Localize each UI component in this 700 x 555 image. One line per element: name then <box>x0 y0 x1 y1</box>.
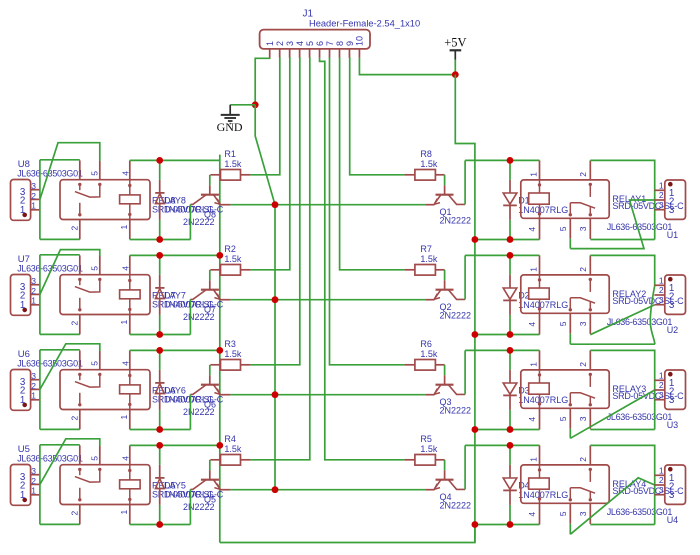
svg-text:2: 2 <box>659 380 664 390</box>
resistor R6 1.5k <box>405 364 415 366</box>
svg-text:JL636-63503G01: JL636-63503G01 <box>607 507 673 517</box>
transistor Q6 2N2222 <box>209 375 211 384</box>
svg-text:2: 2 <box>659 285 664 295</box>
connector U3 body <box>665 370 686 409</box>
svg-text:1: 1 <box>529 457 539 462</box>
transistor Q2 2N2222 <box>444 280 446 289</box>
svg-text:3: 3 <box>578 226 588 231</box>
J1 pin 3 lead <box>289 49 291 58</box>
transistor Q4 2N2222 <box>444 470 446 479</box>
node emitter rail junction row 4 <box>272 486 279 493</box>
svg-text:4: 4 <box>121 171 131 176</box>
wire resistor R6 to base <box>444 365 446 376</box>
wire resistor R4 to base <box>209 460 211 471</box>
wire loop row 1 top <box>40 159 80 161</box>
wire collector Q6 down <box>189 394 191 429</box>
wire loop row 2 bottom <box>40 333 80 335</box>
wire J1 pin 7 to resistor <box>330 58 405 365</box>
relay RELAY1 switch <box>589 183 592 186</box>
svg-text:GND: GND <box>217 120 243 134</box>
svg-text:2: 2 <box>275 41 285 46</box>
node +5V rail junction row 3 <box>472 426 479 433</box>
svg-text:R3: R3 <box>224 339 236 349</box>
relay RELAY6 pin 5 lead <box>99 351 101 370</box>
relay RELAY8 pin 5 lead <box>99 161 101 180</box>
svg-text:1N4007RLG: 1N4007RLG <box>518 490 568 500</box>
wire loop row 3 left vertical <box>39 350 41 430</box>
svg-text:2: 2 <box>31 191 36 201</box>
relay RELAY8 switch <box>78 183 81 186</box>
svg-text:3: 3 <box>659 390 664 400</box>
wire resistor R8 to base <box>444 175 446 186</box>
svg-text:4: 4 <box>527 322 537 327</box>
node diode D2 cathode junction <box>507 331 514 338</box>
wire coil rail right row 4 <box>465 444 539 446</box>
node diode D6 cathode junction <box>156 347 163 354</box>
connector U8 pin1 marker <box>22 213 27 218</box>
wire resistor R5 to base <box>444 460 446 471</box>
svg-text:1: 1 <box>20 205 25 216</box>
relay RELAY6 coil <box>129 370 131 385</box>
svg-text:1: 1 <box>119 415 129 420</box>
connector U3 pin1 marker <box>668 372 673 377</box>
svg-text:5: 5 <box>305 41 315 46</box>
node diode D7 anode junction <box>156 331 163 338</box>
svg-text:3: 3 <box>669 205 675 216</box>
relay RELAY2 body <box>521 275 609 313</box>
wire J1 pin1 to GND node <box>255 58 270 105</box>
svg-text:1: 1 <box>529 362 539 367</box>
relay RELAY3 pin 3 lead <box>589 408 591 429</box>
wire loop row 3 bottom <box>40 428 80 430</box>
relay RELAY2 pin 3 lead <box>589 313 591 334</box>
svg-text:1N4007RLG: 1N4007RLG <box>518 300 568 310</box>
relay RELAY5 pin 5 lead <box>99 446 101 465</box>
svg-text:1: 1 <box>529 267 539 272</box>
wire relay pin5 link row 3 <box>569 429 571 439</box>
svg-text:R6: R6 <box>420 339 432 349</box>
J1 pin 4 lead <box>299 49 301 58</box>
svg-text:1: 1 <box>31 486 36 496</box>
wire J1 pin 6 to resistor R5 <box>320 58 405 460</box>
wire pin2 to relay common row 1 <box>40 143 100 200</box>
connector U2 pin1 marker <box>668 277 673 282</box>
relay RELAY7 pin 1 lead <box>129 315 131 335</box>
resistor R8 1.5k <box>405 174 415 176</box>
svg-text:2: 2 <box>578 362 588 367</box>
svg-text:R1: R1 <box>224 149 236 159</box>
svg-text:2: 2 <box>70 511 80 516</box>
connector U4 body <box>665 465 686 504</box>
svg-text:JL636-63503G01: JL636-63503G01 <box>17 359 83 369</box>
wire emitter rail row 4 <box>230 489 425 491</box>
node diode D3 cathode junction <box>507 426 514 433</box>
relay RELAY6 body <box>60 370 150 410</box>
relay RELAY2 pin 5 lead <box>569 313 571 333</box>
relay RELAY7 coil <box>129 275 131 290</box>
transistor Q7 2N2222 <box>209 280 211 289</box>
connector U5 pin 3 lead <box>31 474 40 476</box>
connector U1 pin1 marker <box>668 182 673 187</box>
svg-text:1: 1 <box>31 296 36 306</box>
svg-text:R7: R7 <box>420 244 432 254</box>
svg-text:9: 9 <box>345 41 355 46</box>
relay RELAY5 switch <box>78 468 81 471</box>
node left bus junction row 4 <box>216 442 223 449</box>
resistor R3 1.5k <box>210 364 220 366</box>
svg-text:2N2222: 2N2222 <box>183 312 215 322</box>
wire relay pin2 route row 3 <box>590 350 654 429</box>
relay RELAY1 coil <box>538 183 541 186</box>
svg-text:3: 3 <box>578 321 588 326</box>
svg-text:1: 1 <box>31 201 36 211</box>
svg-text:2: 2 <box>70 321 80 326</box>
relay RELAY4 body <box>521 465 609 503</box>
wire relay pin5 link row 4 <box>569 524 571 535</box>
connector U1 pin 3 lead <box>654 209 664 211</box>
ground symbol GND <box>229 105 231 114</box>
svg-text:1: 1 <box>119 510 129 515</box>
resistor R4 1.5k <box>210 459 220 461</box>
svg-text:1: 1 <box>659 181 664 191</box>
wire diode D6 branch <box>159 350 161 370</box>
node diode D5 cathode junction <box>156 442 163 449</box>
relay RELAY3 pin 1 lead <box>539 350 541 370</box>
wire resistor R1 to base <box>209 175 211 186</box>
wire GND stub <box>230 104 255 106</box>
wire relay pin2 route row 2 <box>590 255 654 285</box>
J1 pin 1 lead <box>269 49 271 58</box>
wire drive rail row 1 <box>130 239 191 241</box>
node emitter rail junction row 3 <box>272 391 279 398</box>
relay RELAY3 coil <box>538 373 541 376</box>
wire emitter rail row 2 <box>230 299 425 301</box>
wire relay pin5 link row 2 <box>569 334 571 345</box>
connector U5 body <box>11 465 31 506</box>
wire coil rail row 4 <box>130 444 220 446</box>
connector J1 Header-Female-2.54_1x10 body <box>260 30 370 49</box>
connector U7 pin 3 lead <box>31 284 40 286</box>
svg-text:3: 3 <box>669 395 675 406</box>
svg-text:10: 10 <box>355 36 365 46</box>
svg-text:3: 3 <box>578 416 588 421</box>
wire resistor R7 to base <box>444 270 446 281</box>
connector U1 pin 1 lead <box>654 189 664 191</box>
wire coil rail row 3 <box>130 349 220 351</box>
svg-text:2N2222: 2N2222 <box>183 502 215 512</box>
relay RELAY6 pin 4 lead <box>129 350 131 369</box>
connector U4 pin1 marker <box>668 467 673 472</box>
J1 pin 10 lead <box>358 49 360 58</box>
svg-text:2N2222: 2N2222 <box>440 216 472 226</box>
diode D3 1N4007RLG <box>509 370 511 383</box>
wire loop row 2 left vertical <box>39 255 41 335</box>
wire diode D2 branch <box>509 255 511 275</box>
relay RELAY8 coil <box>129 180 131 195</box>
resistor R2 1.5k <box>210 269 220 271</box>
svg-text:1: 1 <box>659 466 664 476</box>
connector U6 pin 1 lead <box>31 399 40 401</box>
relay RELAY3 pin 2 lead <box>589 350 591 370</box>
wire loop row 4 top <box>40 444 80 446</box>
svg-text:5: 5 <box>90 456 100 461</box>
diode D1 1N4007RLG <box>509 180 511 193</box>
wire J1 pin 2 to resistor <box>250 58 279 175</box>
svg-text:3: 3 <box>578 511 588 516</box>
svg-text:2N2222: 2N2222 <box>440 501 472 511</box>
svg-text:1: 1 <box>265 41 275 46</box>
svg-text:4: 4 <box>527 227 537 232</box>
relay RELAY4 switch <box>589 468 592 471</box>
relay RELAY4 coil <box>538 468 541 471</box>
svg-text:2: 2 <box>659 475 664 485</box>
wire collector Q3 up <box>464 350 466 394</box>
connector U4 pin 1 lead <box>654 474 664 476</box>
connector U6 body <box>11 370 31 411</box>
node diode D7 cathode junction <box>156 252 163 259</box>
svg-text:1: 1 <box>659 371 664 381</box>
wire diode D8 branch <box>159 160 161 180</box>
relay RELAY2 pin 4 lead <box>539 313 541 334</box>
wire J1 pin10 to +5V node <box>359 58 455 75</box>
wire +5V rail right row 1 <box>475 239 540 241</box>
svg-text:2: 2 <box>70 226 80 231</box>
relay RELAY7 pin 4 lead <box>129 255 131 274</box>
transistor Q3 2N2222 <box>444 375 446 384</box>
relay RELAY7 pin 3 lead <box>79 255 81 274</box>
relay RELAY4 pin 1 lead <box>539 445 541 465</box>
transistor Q1 2N2222 <box>444 185 446 194</box>
relay RELAY7 pin 5 lead <box>99 256 101 275</box>
resistor R5 1.5k <box>405 459 415 461</box>
svg-text:4: 4 <box>121 361 131 366</box>
svg-text:5: 5 <box>90 171 100 176</box>
svg-text:1.5k: 1.5k <box>224 444 242 454</box>
wire pin3 rail right row 3 <box>590 429 654 431</box>
wire +5V feed down right side <box>455 75 475 543</box>
node diode D8 cathode junction <box>156 157 163 164</box>
svg-text:3: 3 <box>659 295 664 305</box>
resistor R7 1.5k <box>405 269 415 271</box>
relay RELAY8 pin 3 lead <box>79 160 81 179</box>
svg-text:1N4007RLG: 1N4007RLG <box>518 395 568 405</box>
svg-text:3: 3 <box>31 466 36 476</box>
diode D5 1N4007RLG <box>159 465 161 478</box>
wire pin2 to relay common row 4 <box>40 439 100 485</box>
relay RELAY1 pin 4 lead <box>539 218 541 239</box>
svg-text:2: 2 <box>578 267 588 272</box>
svg-text:1.5k: 1.5k <box>224 254 242 264</box>
svg-text:1N4007RLG: 1N4007RLG <box>518 205 568 215</box>
svg-text:U3: U3 <box>667 420 679 430</box>
svg-text:3: 3 <box>669 490 675 501</box>
diode D8 1N4007RLG <box>159 180 161 193</box>
connector U3 pin 1 lead <box>654 379 664 381</box>
relay RELAY1 body <box>521 180 609 218</box>
svg-text:Header-Female-2.54_1x10: Header-Female-2.54_1x10 <box>309 19 420 29</box>
relay RELAY1 pin 3 lead <box>589 218 591 239</box>
svg-text:U1: U1 <box>667 230 679 240</box>
wire collector Q4 up <box>464 445 466 489</box>
svg-text:1: 1 <box>20 395 25 406</box>
svg-text:1: 1 <box>529 172 539 177</box>
node GND junction <box>252 101 259 108</box>
svg-text:JL636-63503G01: JL636-63503G01 <box>607 412 673 422</box>
J1 pin 7 lead <box>329 49 331 58</box>
svg-text:R8: R8 <box>420 149 432 159</box>
svg-text:1: 1 <box>20 300 25 311</box>
relay RELAY1 pin 2 lead <box>589 160 591 180</box>
J1 pin 8 lead <box>338 49 340 58</box>
svg-text:6: 6 <box>315 41 325 46</box>
connector U4 pin 2 lead <box>654 484 664 486</box>
svg-text:3: 3 <box>31 181 36 191</box>
svg-text:R2: R2 <box>224 244 236 254</box>
relay RELAY2 switch <box>589 278 592 281</box>
wire collector Q2 up <box>464 255 466 299</box>
wire loop row 1 bottom <box>40 238 80 240</box>
connector U6 pin 2 lead <box>31 388 40 390</box>
svg-text:JL636-63503G01: JL636-63503G01 <box>17 454 83 464</box>
svg-text:1.5k: 1.5k <box>420 159 438 169</box>
wire J1 pin 9 to resistor <box>349 58 404 175</box>
svg-text:1: 1 <box>20 490 25 501</box>
svg-text:3: 3 <box>659 200 664 210</box>
wire J1 pin 8 to resistor <box>339 58 404 270</box>
connector U3 pin 3 lead <box>654 399 664 401</box>
connector U1 pin 2 lead <box>654 199 664 201</box>
wire J1 pin 4 to resistor <box>250 58 299 365</box>
svg-text:3: 3 <box>669 300 675 311</box>
svg-text:2N2222: 2N2222 <box>183 217 215 227</box>
wire coil rail row 1 <box>130 159 220 161</box>
J1 pin 6 lead <box>319 49 321 58</box>
node +5V rail junction row 4 <box>472 521 479 528</box>
wire collector Q1 up <box>464 160 466 204</box>
node emitter rail junction row 1 <box>272 201 279 208</box>
svg-text:1.5k: 1.5k <box>224 159 242 169</box>
relay RELAY7 switch <box>78 278 81 281</box>
relay RELAY6 pin 1 lead <box>129 410 131 430</box>
relay RELAY3 pin 4 lead <box>539 408 541 429</box>
svg-text:2: 2 <box>578 457 588 462</box>
svg-text:R5: R5 <box>420 434 432 444</box>
wire relay pin2 route row 1 <box>590 160 654 239</box>
transistor Q5 2N2222 <box>209 470 211 479</box>
relay RELAY1 pin 1 lead <box>539 160 541 180</box>
connector U5 pin 1 lead <box>31 494 40 496</box>
connector U2 pin 2 lead <box>654 294 664 296</box>
wire emitter rail row 1 <box>230 204 425 206</box>
svg-text:2: 2 <box>31 476 36 486</box>
node diode D8 anode junction <box>156 236 163 243</box>
wire diode D4 branch <box>509 445 511 465</box>
node diode D1 cathode junction <box>507 236 514 243</box>
wire collector Q8 down <box>189 204 191 239</box>
wire +5V rail right row 2 <box>475 334 540 336</box>
resistor R1 1.5k <box>210 174 220 176</box>
relay RELAY8 pin 2 lead <box>79 220 81 240</box>
relay RELAY7 pin 2 lead <box>79 315 81 335</box>
relay RELAY1 pin 5 lead <box>569 218 571 238</box>
node diode D2 anode junction <box>507 252 514 259</box>
svg-text:5: 5 <box>558 321 568 326</box>
svg-text:3: 3 <box>659 485 664 495</box>
connector U7 pin 1 lead <box>31 304 40 306</box>
diode D6 1N4007RLG <box>159 370 161 383</box>
relay RELAY3 pin 5 lead <box>569 408 571 428</box>
svg-text:2N2222: 2N2222 <box>440 406 472 416</box>
connector U8 pin 3 lead <box>31 189 40 191</box>
node diode D4 anode junction <box>507 442 514 449</box>
connector U7 pin 2 lead <box>31 293 40 295</box>
connector U5 pin 2 lead <box>31 483 40 485</box>
wire pin2 to relay common row 2 <box>40 250 100 295</box>
diode D2 1N4007RLG <box>509 275 511 288</box>
wire +5V to node <box>454 60 456 75</box>
power +5V symbol <box>450 49 462 51</box>
svg-text:1: 1 <box>119 320 129 325</box>
wire loop row 1 left vertical <box>39 160 41 240</box>
wire pin2 to relay common row 3 <box>40 344 100 390</box>
svg-text:2: 2 <box>70 416 80 421</box>
wire emitter rail row 3 <box>230 394 425 396</box>
wire loop row 4 left vertical <box>39 445 41 525</box>
svg-text:2: 2 <box>31 286 36 296</box>
svg-text:1.5k: 1.5k <box>224 349 242 359</box>
svg-text:5: 5 <box>558 511 568 516</box>
svg-text:4: 4 <box>295 41 305 46</box>
svg-text:JL636-63503G01: JL636-63503G01 <box>607 222 673 232</box>
relay RELAY5 pin 3 lead <box>79 445 81 464</box>
svg-text:5: 5 <box>558 226 568 231</box>
wire drive rail row 2 <box>130 334 191 336</box>
connector U6 pin1 marker <box>22 403 27 408</box>
node left bus junction row 2 <box>216 252 223 259</box>
svg-text:2: 2 <box>578 172 588 177</box>
connector U4 pin 3 lead <box>654 494 664 496</box>
svg-text:2N2222: 2N2222 <box>183 407 215 417</box>
svg-text:U4: U4 <box>667 515 679 525</box>
transistor Q8 2N2222 <box>209 185 211 194</box>
svg-text:4: 4 <box>527 512 537 517</box>
wire relay pin2 route row 4 <box>590 445 654 524</box>
wire GND bus vertical <box>274 205 276 490</box>
svg-text:3: 3 <box>31 276 36 286</box>
wire resistor R2 to base <box>209 270 211 281</box>
connector U8 pin 1 lead <box>31 209 40 211</box>
svg-text:2: 2 <box>31 381 36 391</box>
svg-text:1.5k: 1.5k <box>420 254 438 264</box>
relay RELAY6 switch <box>78 373 81 376</box>
J1 pin 2 lead <box>279 49 281 58</box>
relay RELAY2 pin 2 lead <box>589 255 591 275</box>
connector U6 pin 3 lead <box>31 379 40 381</box>
svg-text:5: 5 <box>558 416 568 421</box>
wire coil rail right row 2 <box>465 254 539 256</box>
node +5V rail junction row 2 <box>472 331 479 338</box>
wire relay pin3 diagonal row 2 <box>590 305 654 335</box>
wire J1 pin 3 to resistor <box>250 58 289 270</box>
svg-text:R4: R4 <box>224 434 236 444</box>
node left bus junction row 3 <box>216 347 223 354</box>
svg-text:1: 1 <box>31 391 36 401</box>
svg-text:1.5k: 1.5k <box>420 444 438 454</box>
connector U2 pin 1 lead <box>654 284 664 286</box>
wire coil rail right row 3 <box>465 349 539 351</box>
wire relay pin5 link row 1 <box>569 239 571 249</box>
relay RELAY5 pin 1 lead <box>129 505 131 525</box>
